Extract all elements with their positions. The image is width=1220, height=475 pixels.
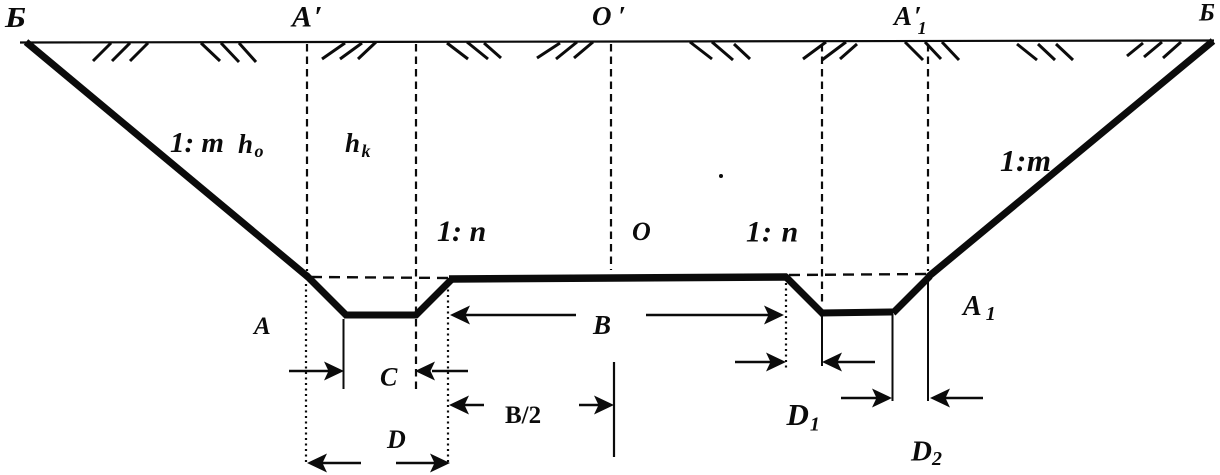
dimension B arrow — [450, 306, 784, 325]
ground hatch group 4 — [447, 42, 501, 59]
stray dot — [719, 174, 723, 178]
svg-text:D: D — [386, 425, 406, 454]
ground hatch group 2 — [201, 43, 256, 62]
svg-text:Б: Б — [4, 3, 26, 34]
ground hatch group 5 — [537, 42, 593, 59]
dashed vertical at right ditch left edge — [821, 44, 823, 306]
right ditch inner slope — [893, 276, 930, 313]
dashed vertical through O' — [610, 44, 612, 270]
extension line below left ditch left corner (C left) — [343, 319, 345, 389]
svg-text:1: n: 1: n — [746, 216, 799, 249]
svg-text:A: A — [252, 313, 271, 340]
ground hatch group 9 — [1017, 44, 1073, 60]
ground hatch group 6 — [690, 42, 750, 60]
dimension D arrow — [307, 454, 450, 473]
svg-text:B: B — [592, 310, 611, 340]
ground hatch group 1 — [93, 43, 148, 61]
extension below right ditch right corner — [892, 314, 894, 401]
dimension D1 arrows — [735, 353, 875, 372]
right ditch outer slope 1:n — [785, 276, 823, 314]
dashed road level across left ditch — [311, 277, 449, 278]
svg-text:1: n: 1: n — [437, 215, 486, 248]
svg-text:B/2: B/2 — [505, 402, 541, 429]
extension below right slope road-level point — [927, 278, 929, 401]
right ditch bottom — [820, 312, 893, 313]
svg-text:O: O — [632, 217, 651, 246]
dashed road level across right ditch — [789, 274, 927, 275]
dotted extension at road left edge (B/D right boundary) — [447, 284, 449, 462]
excavation profile: left slope 1:m — [26, 42, 308, 277]
svg-text:O ′: O ′ — [592, 1, 626, 31]
svg-text:Б: Б — [1198, 0, 1215, 27]
ground hatch group 10 — [1127, 42, 1181, 58]
left ditch inner slope 1:n — [415, 280, 451, 316]
road centre extension line — [613, 362, 615, 457]
ground surface line — [20, 41, 1214, 43]
svg-text:C: C — [380, 363, 398, 392]
dashed vertical through A' — [306, 44, 308, 271]
dimension B/2 arrows — [449, 396, 614, 415]
dimension D2 arrows — [841, 389, 983, 408]
svg-text:1: m: 1: m — [170, 127, 224, 159]
ground hatch group 8 — [905, 42, 959, 60]
right slope 1:m — [928, 41, 1213, 277]
extension below right ditch left corner — [821, 315, 823, 366]
svg-text:A′: A′ — [290, 1, 322, 34]
dotted extension at road right edge (D1 left boundary) — [785, 283, 787, 368]
left ditch outer slope — [306, 275, 347, 316]
dashed vertical through A'1 — [927, 44, 929, 271]
svg-text:1:m: 1:m — [1000, 143, 1051, 178]
ground hatch group 7 — [803, 42, 857, 60]
dashed vertical at inner ditch edge — [415, 44, 417, 390]
dimension C arrows — [289, 362, 468, 381]
dotted vertical below A' (D left extension) — [305, 284, 307, 462]
ground hatch group 3 — [322, 42, 376, 59]
left ditch bottom — [344, 312, 417, 319]
road bed surface — [449, 277, 787, 279]
